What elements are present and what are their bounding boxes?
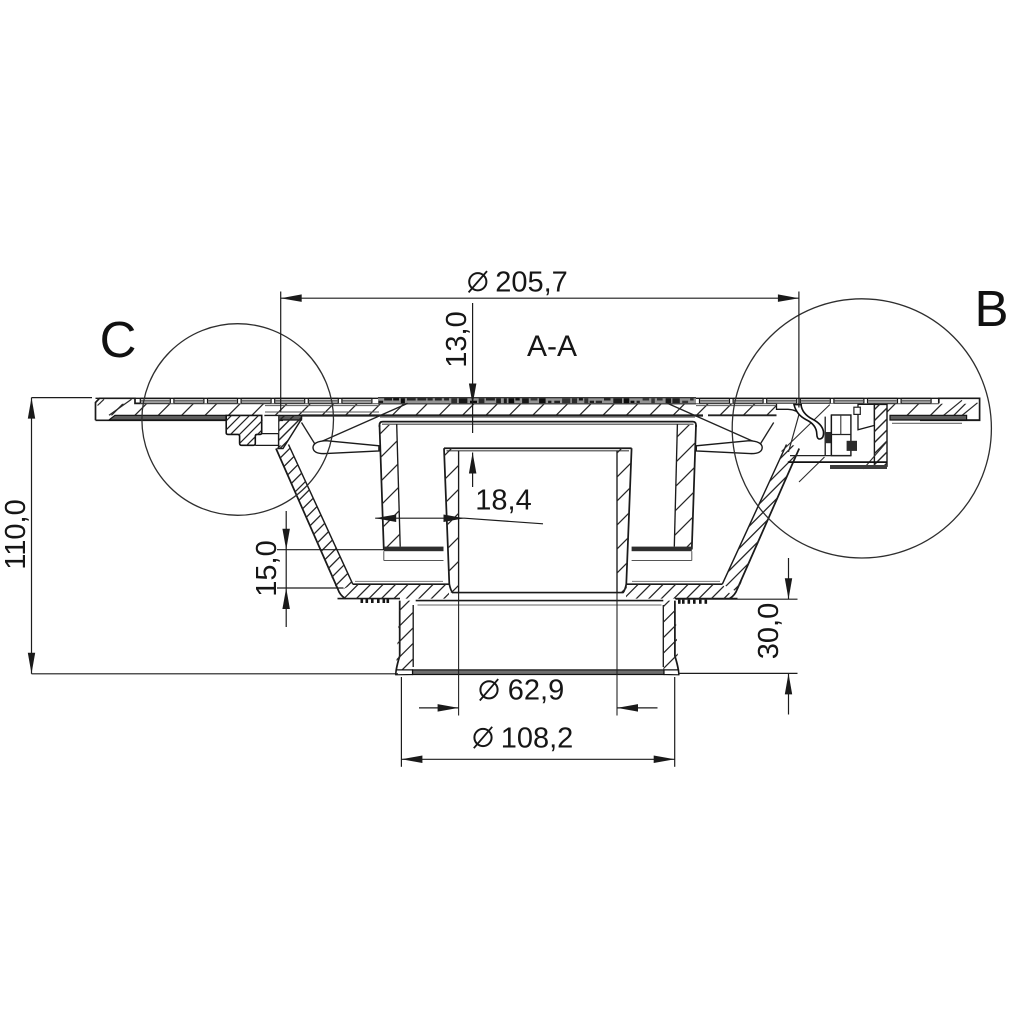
dim 62.9 dia symbol [480,681,497,698]
dim 205.7 dia symbol [469,273,486,290]
dim 110.0 extension lines [32,397,93,399]
box right wall [692,425,696,550]
right cone edge line [668,403,758,443]
dim 13.0 arrows [469,384,477,405]
dim 110.0 arrows [28,398,35,419]
dim 15.0 line [285,511,287,627]
svg-text:18,4: 18,4 [475,485,531,517]
dim 108.2 arrows [401,756,422,764]
grate underside dark band [109,415,226,420]
svg-text:30,0: 30,0 [753,603,785,659]
detail circle B [732,299,991,558]
dim 15.0 extension lines [277,549,384,551]
chimney right wall [623,448,632,592]
svg-text:C: C [100,311,137,368]
latch bottom plate [790,455,851,457]
detail circle C [142,324,334,516]
dim 205.7 extension lines [280,292,282,412]
funnel right wall [730,449,800,599]
grate slats outer [140,398,170,403]
dim 62.9 line [419,707,459,709]
pipe bell left notch [396,670,413,675]
left leaf seal [313,441,379,454]
dim 108.2 line [401,758,674,760]
grate left end cap [96,398,141,420]
svg-text:110,0: 110,0 [0,499,32,569]
pipe right wall [675,601,679,675]
funnel floor left [355,580,443,582]
dim 108.2 extension lines [400,677,402,767]
dim 30.0 arrows [785,578,792,599]
grate under-slat line [140,403,939,405]
left cone edge line [317,403,408,443]
grate slats middle dense [378,398,696,404]
pipe bore left edge [458,593,460,716]
dim 108.2 dia symbol [474,729,491,746]
dim 205.7 arrows [281,294,302,302]
funnel left wall [276,449,346,599]
latch slider parts [777,404,888,416]
frame edge lines right [696,405,776,407]
box left wall [380,425,384,550]
pipe bore shoulder line [452,592,624,594]
grate top edge line [96,397,980,399]
svg-text:A-A: A-A [527,330,577,363]
svg-text:62,9: 62,9 [508,675,564,707]
latch lug hatched [874,404,887,466]
dim 62.9 arrows [438,704,459,712]
chimney top face [444,447,632,449]
dim 15.0 arrows [282,529,290,550]
pipe bell right notch [664,670,679,675]
dim 30.0 extension lines [676,598,798,600]
pipe bore right edge [616,593,618,716]
svg-text:205,7: 205,7 [495,267,568,299]
dim 205.7 line [281,297,799,299]
rim lower step line right [892,422,962,424]
right leaf seal [696,441,762,454]
seal serrations [361,599,364,603]
dim 18.4 arrows [375,515,396,523]
box top gray line [380,416,695,418]
pipe left wall [396,601,400,675]
left clip [226,415,262,445]
pipe bottom band [413,670,665,675]
box top face [380,422,697,427]
chimney left wall [444,448,453,592]
svg-text:B: B [974,280,1008,337]
clip white step [263,416,279,433]
grate right band end step [967,419,980,421]
dim 13.0 line [472,303,474,433]
svg-text:13,0: 13,0 [441,311,473,367]
svg-text:108,2: 108,2 [501,723,574,755]
pipe top face [416,600,664,602]
dim 110.0 line [31,398,33,674]
box right ledge [632,547,692,552]
latch see-through diagonal [863,442,887,469]
dim 18.4 line [375,517,464,519]
frame edge lines left [265,405,379,407]
grate right end cap [920,398,980,420]
funnel floor right [632,580,720,582]
box left ledge [384,547,444,552]
svg-text:15,0: 15,0 [251,540,283,596]
dim 30.0 line [788,558,790,599]
